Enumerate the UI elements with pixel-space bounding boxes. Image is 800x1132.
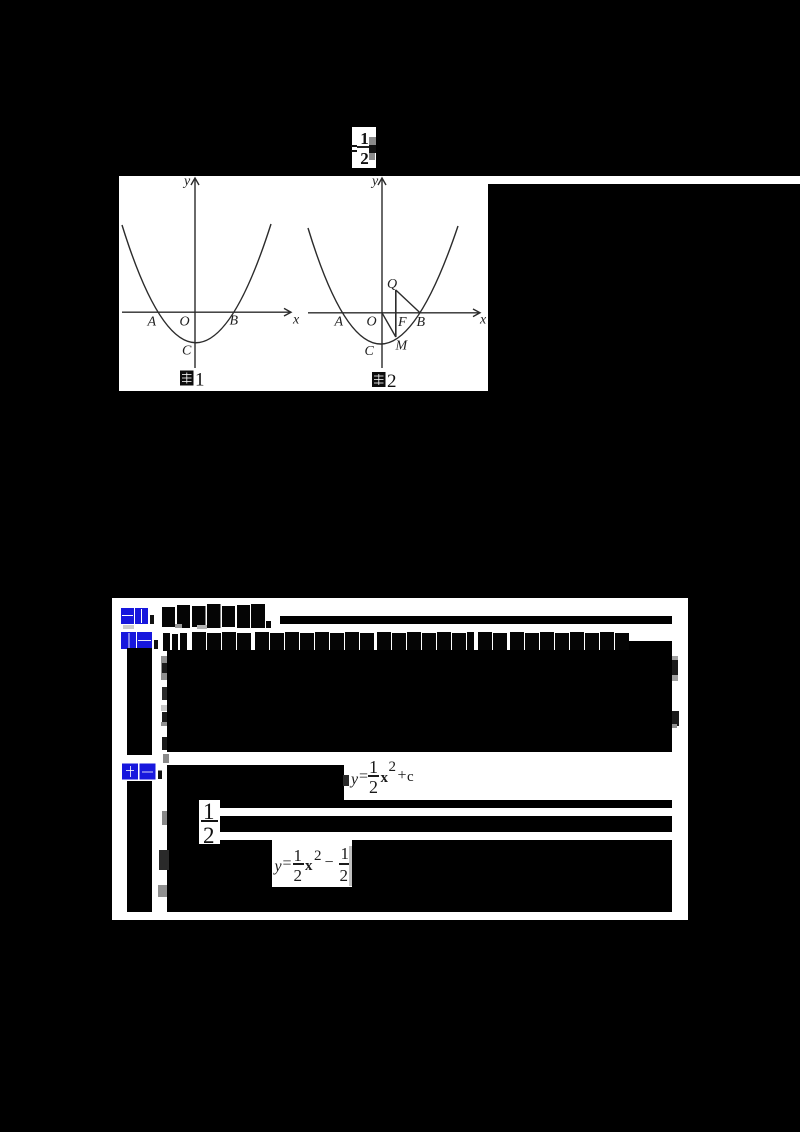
fig1 caption 图1	[180, 370, 205, 391]
svg-text:2: 2	[387, 371, 397, 391]
fragment at bar1 right edge	[343, 775, 349, 786]
fig2 segment Q-B	[396, 290, 420, 313]
smudge under 考点 label	[123, 625, 134, 629]
分析 right edge fragments	[672, 656, 679, 681]
standalone 1/2 patch	[199, 801, 220, 844]
fig1 y-axis	[194, 179, 196, 368]
解答 line2 bars right	[220, 800, 672, 808]
top formula patch "=1/2"	[352, 127, 376, 168]
svg-text:B: B	[417, 315, 426, 330]
svg-text:1: 1	[195, 370, 205, 391]
分析 left edge fragments	[161, 656, 167, 680]
fig2 segment Q-M	[395, 290, 397, 337]
figure box white background	[119, 176, 488, 391]
answer box white background	[112, 598, 688, 920]
fragment above 解答 bar	[163, 754, 169, 763]
formula y=1/2x^2-1/2 patch	[272, 839, 353, 887]
分析 big block	[167, 650, 672, 752]
分析 line1 text blobs	[163, 631, 633, 652]
fig1 parabola	[122, 224, 271, 343]
fig2 caption 图2	[372, 371, 397, 392]
formula y=1/2x^2+c	[352, 760, 422, 800]
white strip right of figure box	[488, 176, 800, 184]
figures SVG placed over figure box	[119, 176, 488, 391]
row1 text blob 二次函数综合题.	[161, 603, 276, 629]
svg-text:F: F	[397, 315, 407, 330]
row1 long bar	[280, 616, 672, 624]
fragment in line2 left	[162, 811, 167, 825]
fig1 x-axis	[122, 311, 290, 313]
svg-text:y: y	[182, 176, 191, 189]
svg-text:y: y	[370, 176, 379, 189]
fig2 y-axis	[381, 179, 383, 368]
解答 line1 bar	[167, 765, 344, 800]
svg-text:O: O	[180, 315, 190, 330]
svg-text:Q: Q	[387, 277, 397, 292]
line3 left fragments	[159, 850, 169, 870]
svg-text:x: x	[479, 313, 487, 328]
解答 line2 left chunk	[167, 800, 199, 844]
svg-text:M: M	[395, 339, 409, 354]
svg-text:C: C	[365, 344, 375, 359]
fig2 x-axis	[308, 312, 479, 314]
svg-text:B: B	[230, 314, 239, 329]
blue label 解答	[122, 761, 164, 781]
label column bars	[127, 648, 152, 755]
svg-text:A: A	[334, 315, 344, 330]
svg-text:x: x	[292, 313, 300, 328]
blue label 考点	[121, 607, 159, 626]
svg-text:C: C	[182, 344, 192, 359]
fig2 segment O-M	[382, 313, 396, 337]
解答 line3 big block	[167, 840, 672, 912]
blue label 分析	[121, 631, 161, 650]
fig2 parabola	[308, 226, 458, 344]
svg-text:A: A	[147, 315, 157, 330]
svg-text:O: O	[367, 315, 377, 330]
